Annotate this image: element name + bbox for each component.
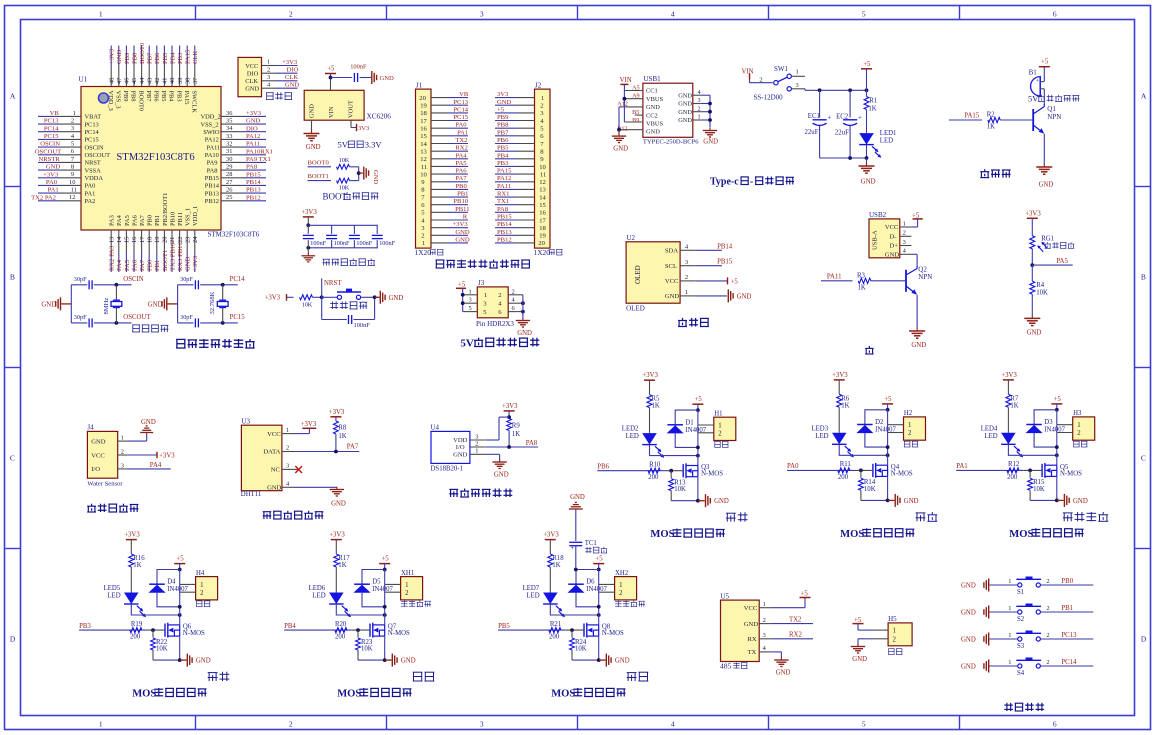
- svg-text:PB3: PB3: [177, 52, 184, 64]
- svg-text:GND: GND: [678, 109, 692, 116]
- led LED2 [Q3]: [642, 433, 657, 445]
- power +5 at buzzer: [1039, 66, 1050, 68]
- svg-text:USB-A: USB-A: [872, 230, 879, 250]
- mcu U1 bottom net labels: [109, 245, 116, 271]
- svg-text:PC13: PC13: [85, 121, 99, 128]
- power +5 above R1: [861, 68, 872, 70]
- svg-text:EC2: EC2: [836, 114, 849, 121]
- svg-text:100nF: 100nF: [379, 240, 395, 247]
- ground GND below Q2: [916, 328, 918, 331]
- svg-text:MOS: MOS: [337, 689, 361, 700]
- svg-text:R4: R4: [1036, 282, 1045, 289]
- regulator GND pin wire: [311, 120, 313, 131]
- ground GND below XC6206: [311, 131, 313, 134]
- svg-text:SS-12D00: SS-12D00: [754, 94, 784, 102]
- svg-text:28: 28: [226, 171, 232, 178]
- svg-text:13: 13: [539, 187, 546, 194]
- svg-text:A: A: [10, 92, 16, 101]
- svg-text:19: 19: [539, 233, 546, 240]
- mcu U1 bottom pin names: [109, 215, 116, 226]
- svg-text:GND: GND: [267, 485, 282, 492]
- svg-text:5V: 5V: [1028, 95, 1038, 104]
- svg-text:PA12: PA12: [205, 137, 219, 144]
- svg-text:GND: GND: [116, 49, 123, 64]
- svg-text:LED2: LED2: [622, 426, 639, 433]
- svg-text:24: 24: [192, 236, 199, 243]
- svg-text:PB6: PB6: [497, 137, 509, 144]
- svg-text:+5: +5: [381, 556, 389, 563]
- label 接口 (H5): [888, 649, 894, 655]
- svg-text:RX: RX: [748, 636, 757, 643]
- svg-text:1: 1: [121, 435, 124, 442]
- label 下载口: [266, 93, 274, 100]
- svg-text:PB0: PB0: [147, 259, 154, 271]
- svg-text:PB10: PB10: [169, 212, 176, 226]
- svg-text:10K: 10K: [1036, 290, 1048, 297]
- svg-text:CC1: CC1: [646, 88, 658, 95]
- svg-text:GND: GND: [41, 302, 56, 309]
- svg-text:VB: VB: [50, 110, 60, 117]
- transistor Q2 NPN: [905, 270, 907, 292]
- svg-text:VBAT: VBAT: [85, 114, 102, 121]
- svg-text:PA11: PA11: [827, 273, 842, 280]
- svg-text:RX2: RX2: [455, 145, 467, 152]
- svg-text:32: 32: [226, 141, 232, 148]
- svg-text:2: 2: [1046, 605, 1049, 612]
- svg-text:2: 2: [71, 118, 74, 125]
- power +5 at U5: [772, 607, 805, 609]
- svg-text:100nF: 100nF: [354, 322, 371, 329]
- resistor R20 200 [Q7]: [335, 628, 347, 633]
- svg-text:PA5: PA5: [124, 259, 131, 271]
- svg-text:GND: GND: [613, 146, 628, 153]
- svg-text:1: 1: [541, 95, 544, 102]
- svg-text:MOS: MOS: [132, 689, 156, 700]
- svg-text:+5: +5: [458, 281, 466, 288]
- svg-text:GND: GND: [185, 256, 192, 271]
- svg-text:1K: 1K: [868, 106, 876, 113]
- svg-text:R21: R21: [550, 621, 561, 628]
- svg-text:10: 10: [539, 164, 546, 171]
- capacitor 100nF at XC6206: [353, 73, 355, 82]
- svg-text:27: 27: [226, 179, 233, 186]
- svg-text:PB12: PB12: [205, 198, 219, 205]
- ground GND below LED1: [866, 163, 868, 166]
- svg-text:PB6: PB6: [153, 91, 160, 102]
- resistor R11 200 [Q4]: [838, 468, 850, 473]
- svg-text:16: 16: [420, 126, 427, 133]
- power +3V3 (LED2) [Q3]: [644, 379, 655, 381]
- capacitor EC1 22uF: [819, 90, 821, 117]
- label 芯片滤波电容: [323, 259, 330, 265]
- svg-text:B: B: [10, 273, 15, 282]
- svg-text:+3V3: +3V3: [329, 409, 345, 416]
- svg-text:D3: D3: [1044, 419, 1053, 426]
- mcu U1 body: [81, 87, 221, 231]
- svg-text:R7: R7: [1010, 395, 1019, 402]
- svg-text:LED1: LED1: [880, 130, 897, 137]
- wire J3 right to ground: [522, 295, 524, 319]
- svg-text:PA0: PA0: [85, 183, 96, 190]
- mcu U1 top pin numbers 48-37: [108, 78, 115, 84]
- resistor 10K (BOOT0): [337, 164, 350, 169]
- svg-text:TX2: TX2: [455, 137, 467, 144]
- wire source to ground rail [Q8]: [598, 636, 600, 660]
- svg-text:R6: R6: [841, 395, 850, 402]
- ground GND at H5: [857, 644, 859, 647]
- svg-text:GND: GND: [455, 229, 470, 236]
- svg-text:PB5: PB5: [162, 52, 169, 64]
- led LED7 [Q8]: [543, 593, 558, 605]
- svg-text:PB10: PB10: [453, 198, 468, 205]
- svg-text:PA5: PA5: [455, 160, 467, 167]
- svg-text:1: 1: [99, 10, 103, 19]
- svg-text:PC13: PC13: [44, 118, 59, 125]
- transistor Q1 NPN: [1032, 109, 1034, 131]
- connector J4 pins 1-3: [118, 440, 128, 442]
- svg-text:6: 6: [1053, 10, 1057, 19]
- label 复位电路: [330, 301, 338, 309]
- label 加湿 [Q8]: [627, 673, 637, 681]
- ground GND bar right of 100nF: [371, 71, 373, 84]
- power +5 (H1) [Q3]: [692, 403, 703, 405]
- svg-text:3.3V: 3.3V: [365, 140, 383, 150]
- svg-text:PA9: PA9: [207, 160, 218, 167]
- svg-text:LED4: LED4: [981, 425, 998, 432]
- svg-text:30pF: 30pF: [180, 276, 193, 283]
- svg-text:OSCIN: OSCIN: [85, 144, 105, 151]
- svg-text:14: 14: [420, 141, 427, 148]
- svg-text:NRST: NRST: [85, 160, 101, 167]
- svg-text:PB12: PB12: [246, 194, 261, 201]
- svg-text:200: 200: [335, 634, 346, 641]
- svg-text:37: 37: [192, 77, 199, 84]
- power +3V3 at filter caps: [303, 216, 314, 218]
- svg-text:1: 1: [422, 240, 425, 247]
- svg-text:MOS: MOS: [551, 689, 575, 700]
- label 温湿度传感器: [263, 512, 272, 519]
- svg-text:GND: GND: [776, 670, 791, 677]
- wire J4 GND up: [127, 440, 146, 442]
- svg-text:RG1: RG1: [1041, 236, 1054, 243]
- connector J4 body: [87, 431, 117, 478]
- svg-text:TX2: TX2: [789, 616, 802, 623]
- label 显示屏: [678, 318, 687, 327]
- resistor R16 1K [Q6]: [129, 554, 134, 567]
- led LED3 [Q4]: [832, 433, 847, 445]
- svg-text:1K: 1K: [552, 562, 560, 569]
- svg-text:LED: LED: [312, 593, 325, 600]
- label 白色底座 [Q7]: [401, 601, 407, 607]
- svg-text:PC13: PC13: [1061, 632, 1077, 639]
- svg-text:PA10: PA10: [205, 152, 219, 159]
- svg-text:PC13: PC13: [453, 99, 468, 106]
- svg-text:2: 2: [903, 230, 906, 237]
- svg-text:10K: 10K: [864, 486, 876, 493]
- svg-text:D: D: [10, 635, 16, 644]
- mcu U1 bottom pin stubs: [110, 230, 112, 252]
- wire source to ground rail [Q7]: [384, 636, 386, 660]
- svg-text:+5: +5: [595, 556, 603, 563]
- ground GND at U5: [780, 657, 782, 660]
- svg-text:GND: GND: [46, 164, 61, 171]
- wire LED5 to drain node [Q6]: [131, 604, 179, 615]
- wire +5 rail [Q4]: [887, 410, 889, 465]
- svg-text:5: 5: [469, 305, 472, 312]
- wire gate net PB4 [Q7]: [284, 629, 352, 631]
- svg-text:30: 30: [226, 156, 232, 163]
- wire +5 rail [Q6]: [179, 570, 181, 625]
- svg-text:OLED: OLED: [634, 265, 642, 284]
- resistor R2 1K: [988, 117, 1000, 122]
- wire gate net PB3 [Q6]: [79, 629, 147, 631]
- svg-text:38: 38: [184, 78, 191, 84]
- resistor R8 1K pullup: [334, 421, 339, 434]
- svg-text:PB8: PB8: [130, 91, 137, 102]
- svg-text:VIN: VIN: [620, 77, 632, 84]
- wire USB1 left chain: [623, 84, 625, 122]
- svg-text:+3V3: +3V3: [832, 372, 848, 379]
- svg-text:PB7: PB7: [497, 129, 509, 136]
- svg-text:U2: U2: [627, 234, 636, 242]
- svg-text:GND: GND: [852, 656, 867, 663]
- svg-text:2: 2: [718, 431, 722, 438]
- svg-text:N-MOS: N-MOS: [602, 630, 624, 637]
- svg-text:41: 41: [162, 78, 169, 84]
- svg-text:43: 43: [146, 78, 153, 84]
- sensor U3 pins 1-4: [282, 433, 294, 435]
- svg-text:1K: 1K: [1010, 402, 1018, 409]
- svg-text:15: 15: [124, 237, 131, 243]
- connector XH2 [Q8]: [615, 577, 637, 600]
- svg-text:DS18B20-1: DS18B20-1: [431, 466, 463, 473]
- svg-text:35: 35: [226, 118, 232, 125]
- svg-text:PB8: PB8: [131, 52, 138, 64]
- svg-text:D4: D4: [167, 579, 176, 586]
- svg-text:PB1: PB1: [457, 191, 468, 198]
- svg-text:GND: GND: [570, 494, 585, 501]
- wire LED6 to drain node [Q7]: [336, 604, 384, 615]
- wire +5 rail [Q3]: [697, 410, 699, 465]
- svg-text:200: 200: [549, 634, 560, 641]
- svg-text:12: 12: [420, 156, 427, 163]
- svg-text:2: 2: [908, 430, 912, 437]
- label 加水 [Q4]: [916, 513, 926, 521]
- svg-text:PB14: PB14: [497, 221, 512, 228]
- svg-text:BOOT: BOOT: [323, 192, 348, 202]
- svg-text:+5: +5: [497, 106, 505, 113]
- label 水位传感器: [87, 504, 96, 512]
- svg-text:BOOT1: BOOT1: [162, 250, 169, 271]
- svg-text:1K: 1K: [987, 124, 995, 131]
- svg-text:GND: GND: [331, 501, 346, 508]
- svg-text:MOS: MOS: [650, 529, 674, 540]
- svg-text:3V3: 3V3: [497, 91, 509, 98]
- connector USB2 pins 1-4: [900, 226, 912, 228]
- svg-text:VDDA: VDDA: [85, 175, 104, 182]
- svg-text:GND: GND: [678, 101, 692, 108]
- diode D5 IN4007 [Q7]: [362, 570, 385, 585]
- svg-text:3: 3: [469, 297, 472, 304]
- svg-text:10: 10: [420, 171, 427, 178]
- svg-text:J2: J2: [535, 81, 542, 89]
- svg-text:MOS: MOS: [1009, 529, 1033, 540]
- mcu U1 top net labels: [109, 48, 116, 64]
- svg-text:GND: GND: [306, 144, 321, 151]
- svg-text:PB4: PB4: [284, 623, 296, 630]
- svg-text:R: R: [463, 214, 468, 221]
- power +3V3 (LED7) [Q8]: [545, 539, 556, 541]
- svg-text:1K: 1K: [512, 431, 520, 438]
- connector H4 [Q6]: [196, 577, 218, 600]
- regulator XC6206 body: [304, 90, 364, 120]
- wire gate net PA1 [Q5]: [956, 469, 1024, 471]
- svg-text:DIO: DIO: [246, 125, 258, 132]
- svg-text:RX2 PA3: RX2 PA3: [109, 245, 116, 271]
- svg-text:PA4: PA4: [150, 462, 162, 469]
- svg-text:SCL: SCL: [665, 263, 677, 270]
- resistor R4 10K: [1031, 265, 1033, 281]
- resistor R13 10K [Q3]: [670, 471, 672, 478]
- svg-text:LED6: LED6: [309, 585, 326, 592]
- svg-text:OSCIN: OSCIN: [123, 276, 143, 283]
- svg-text:+3V3: +3V3: [1001, 372, 1017, 379]
- wire LED2 to drain node [Q3]: [650, 445, 698, 456]
- wire source to ground rail [Q3]: [697, 477, 699, 501]
- svg-text:R17: R17: [338, 555, 350, 562]
- svg-text:PA7: PA7: [455, 175, 467, 182]
- svg-text:OSCOUT: OSCOUT: [35, 148, 61, 155]
- label 单片机最小系统: [176, 339, 186, 348]
- connector J1 body: [416, 89, 432, 248]
- svg-text:3: 3: [121, 462, 124, 469]
- svg-text:3: 3: [286, 463, 289, 470]
- svg-text:+3V3: +3V3: [1025, 210, 1041, 217]
- svg-text:SDA: SDA: [665, 248, 678, 255]
- display U2 pins: [680, 249, 696, 251]
- svg-text:OSCOUT: OSCOUT: [123, 314, 151, 321]
- svg-text:VDD: VDD: [453, 437, 468, 444]
- svg-text:+5: +5: [801, 591, 809, 598]
- svg-text:GND: GND: [196, 658, 211, 665]
- svg-text:2: 2: [1077, 430, 1081, 437]
- svg-text:PA15: PA15: [497, 168, 512, 175]
- connector USB2 body: [869, 219, 900, 258]
- connector USB2 vertical name USB-A: [872, 230, 879, 250]
- svg-text:+3V3: +3V3: [453, 221, 469, 228]
- svg-text:VSS_1: VSS_1: [185, 208, 192, 226]
- svg-text:PA2: PA2: [85, 198, 96, 205]
- svg-text:20: 20: [538, 240, 545, 247]
- svg-text:USB1: USB1: [644, 75, 662, 83]
- svg-text:PA6: PA6: [131, 215, 138, 226]
- svg-text:GND: GND: [646, 104, 660, 111]
- connector J2 body: [535, 89, 551, 248]
- resistor 10K (BOOT1): [337, 178, 350, 183]
- svg-text:LED: LED: [107, 593, 120, 600]
- svg-text:GND: GND: [372, 170, 379, 185]
- connector download port body: [238, 57, 262, 96]
- svg-text:GND: GND: [703, 139, 718, 146]
- wire U5 GND to TX2: [772, 623, 813, 625]
- svg-text:GND: GND: [714, 498, 729, 505]
- mcu U1 right pin wires: [243, 115, 266, 117]
- svg-text:1: 1: [475, 448, 478, 455]
- svg-text:TC1: TC1: [585, 540, 597, 547]
- mcu U1 pin-1 marker dot: [99, 93, 109, 103]
- svg-text:PA5: PA5: [124, 215, 131, 226]
- svg-text:N-MOS: N-MOS: [388, 630, 410, 637]
- svg-text:PB15: PB15: [497, 214, 512, 221]
- svg-text:STM32F103C8T6: STM32F103C8T6: [208, 231, 260, 239]
- svg-text:GND: GND: [904, 498, 919, 505]
- svg-text:+5: +5: [1041, 59, 1049, 66]
- wire source to ground rail [Q5]: [1056, 476, 1058, 500]
- mcu U1 top pin wires: [110, 46, 112, 67]
- capacitor TC1 tantalum [Q8]: [575, 510, 577, 542]
- svg-text:R11: R11: [840, 461, 851, 468]
- svg-text:PA12: PA12: [497, 175, 511, 182]
- svg-text:J3: J3: [478, 279, 485, 287]
- svg-text:PA10RX1: PA10RX1: [246, 148, 273, 155]
- svg-text:5V: 5V: [338, 140, 349, 150]
- svg-text:+5: +5: [854, 617, 862, 624]
- svg-text:14: 14: [116, 236, 123, 243]
- label 接口 [Q6]: [196, 601, 202, 607]
- ground GND below filter caps: [307, 253, 309, 256]
- resistor R6 1K [Q4]: [837, 394, 842, 407]
- wire U2 SCL to PB15: [696, 265, 722, 267]
- power +5 (H3) [Q5]: [1051, 403, 1062, 405]
- wire EC caps bottom rail: [820, 157, 867, 159]
- svg-text:PA7: PA7: [139, 214, 146, 226]
- svg-text:PB3: PB3: [175, 91, 182, 102]
- svg-text:TX1: TX1: [497, 198, 509, 205]
- svg-text:OLED: OLED: [626, 305, 645, 313]
- wire U2 SDA to PB14: [696, 249, 722, 251]
- svg-text:LED: LED: [880, 138, 893, 145]
- svg-text:+5: +5: [1054, 396, 1062, 403]
- label 独立按键: [1004, 703, 1013, 711]
- svg-text:2: 2: [421, 233, 424, 240]
- svg-text:N-MOS: N-MOS: [183, 630, 205, 637]
- svg-text:22uF: 22uF: [835, 130, 849, 137]
- led LED5 [Q6]: [124, 593, 139, 605]
- svg-text:-: -: [750, 177, 753, 188]
- svg-text:29: 29: [226, 164, 232, 171]
- svg-text:H2: H2: [904, 410, 913, 417]
- svg-text:1: 1: [484, 292, 487, 299]
- svg-text:20: 20: [162, 237, 169, 243]
- svg-text:RX1: RX1: [497, 191, 509, 198]
- connector H3 [Q5]: [1073, 417, 1095, 440]
- svg-text:1: 1: [619, 582, 622, 589]
- label 蜂鸣器: [980, 169, 989, 177]
- mcu U1 left pin stubs: [60, 115, 81, 117]
- led LED4 [Q5]: [1001, 433, 1016, 445]
- power +3V3 above R9: [504, 410, 515, 412]
- power +5 at U2 VCC: [696, 280, 727, 282]
- svg-text:10K: 10K: [156, 646, 168, 653]
- svg-text:1: 1: [286, 427, 289, 434]
- ground GND (Q4) [Q4]: [888, 499, 895, 501]
- resistor R12 200 [Q5]: [1007, 468, 1019, 473]
- svg-text:1: 1: [1008, 659, 1011, 666]
- svg-text:1: 1: [469, 288, 472, 295]
- svg-text:VCC: VCC: [91, 452, 105, 459]
- svg-text:PC14: PC14: [1061, 659, 1077, 666]
- power +5 (XH2) [Q8]: [593, 563, 604, 565]
